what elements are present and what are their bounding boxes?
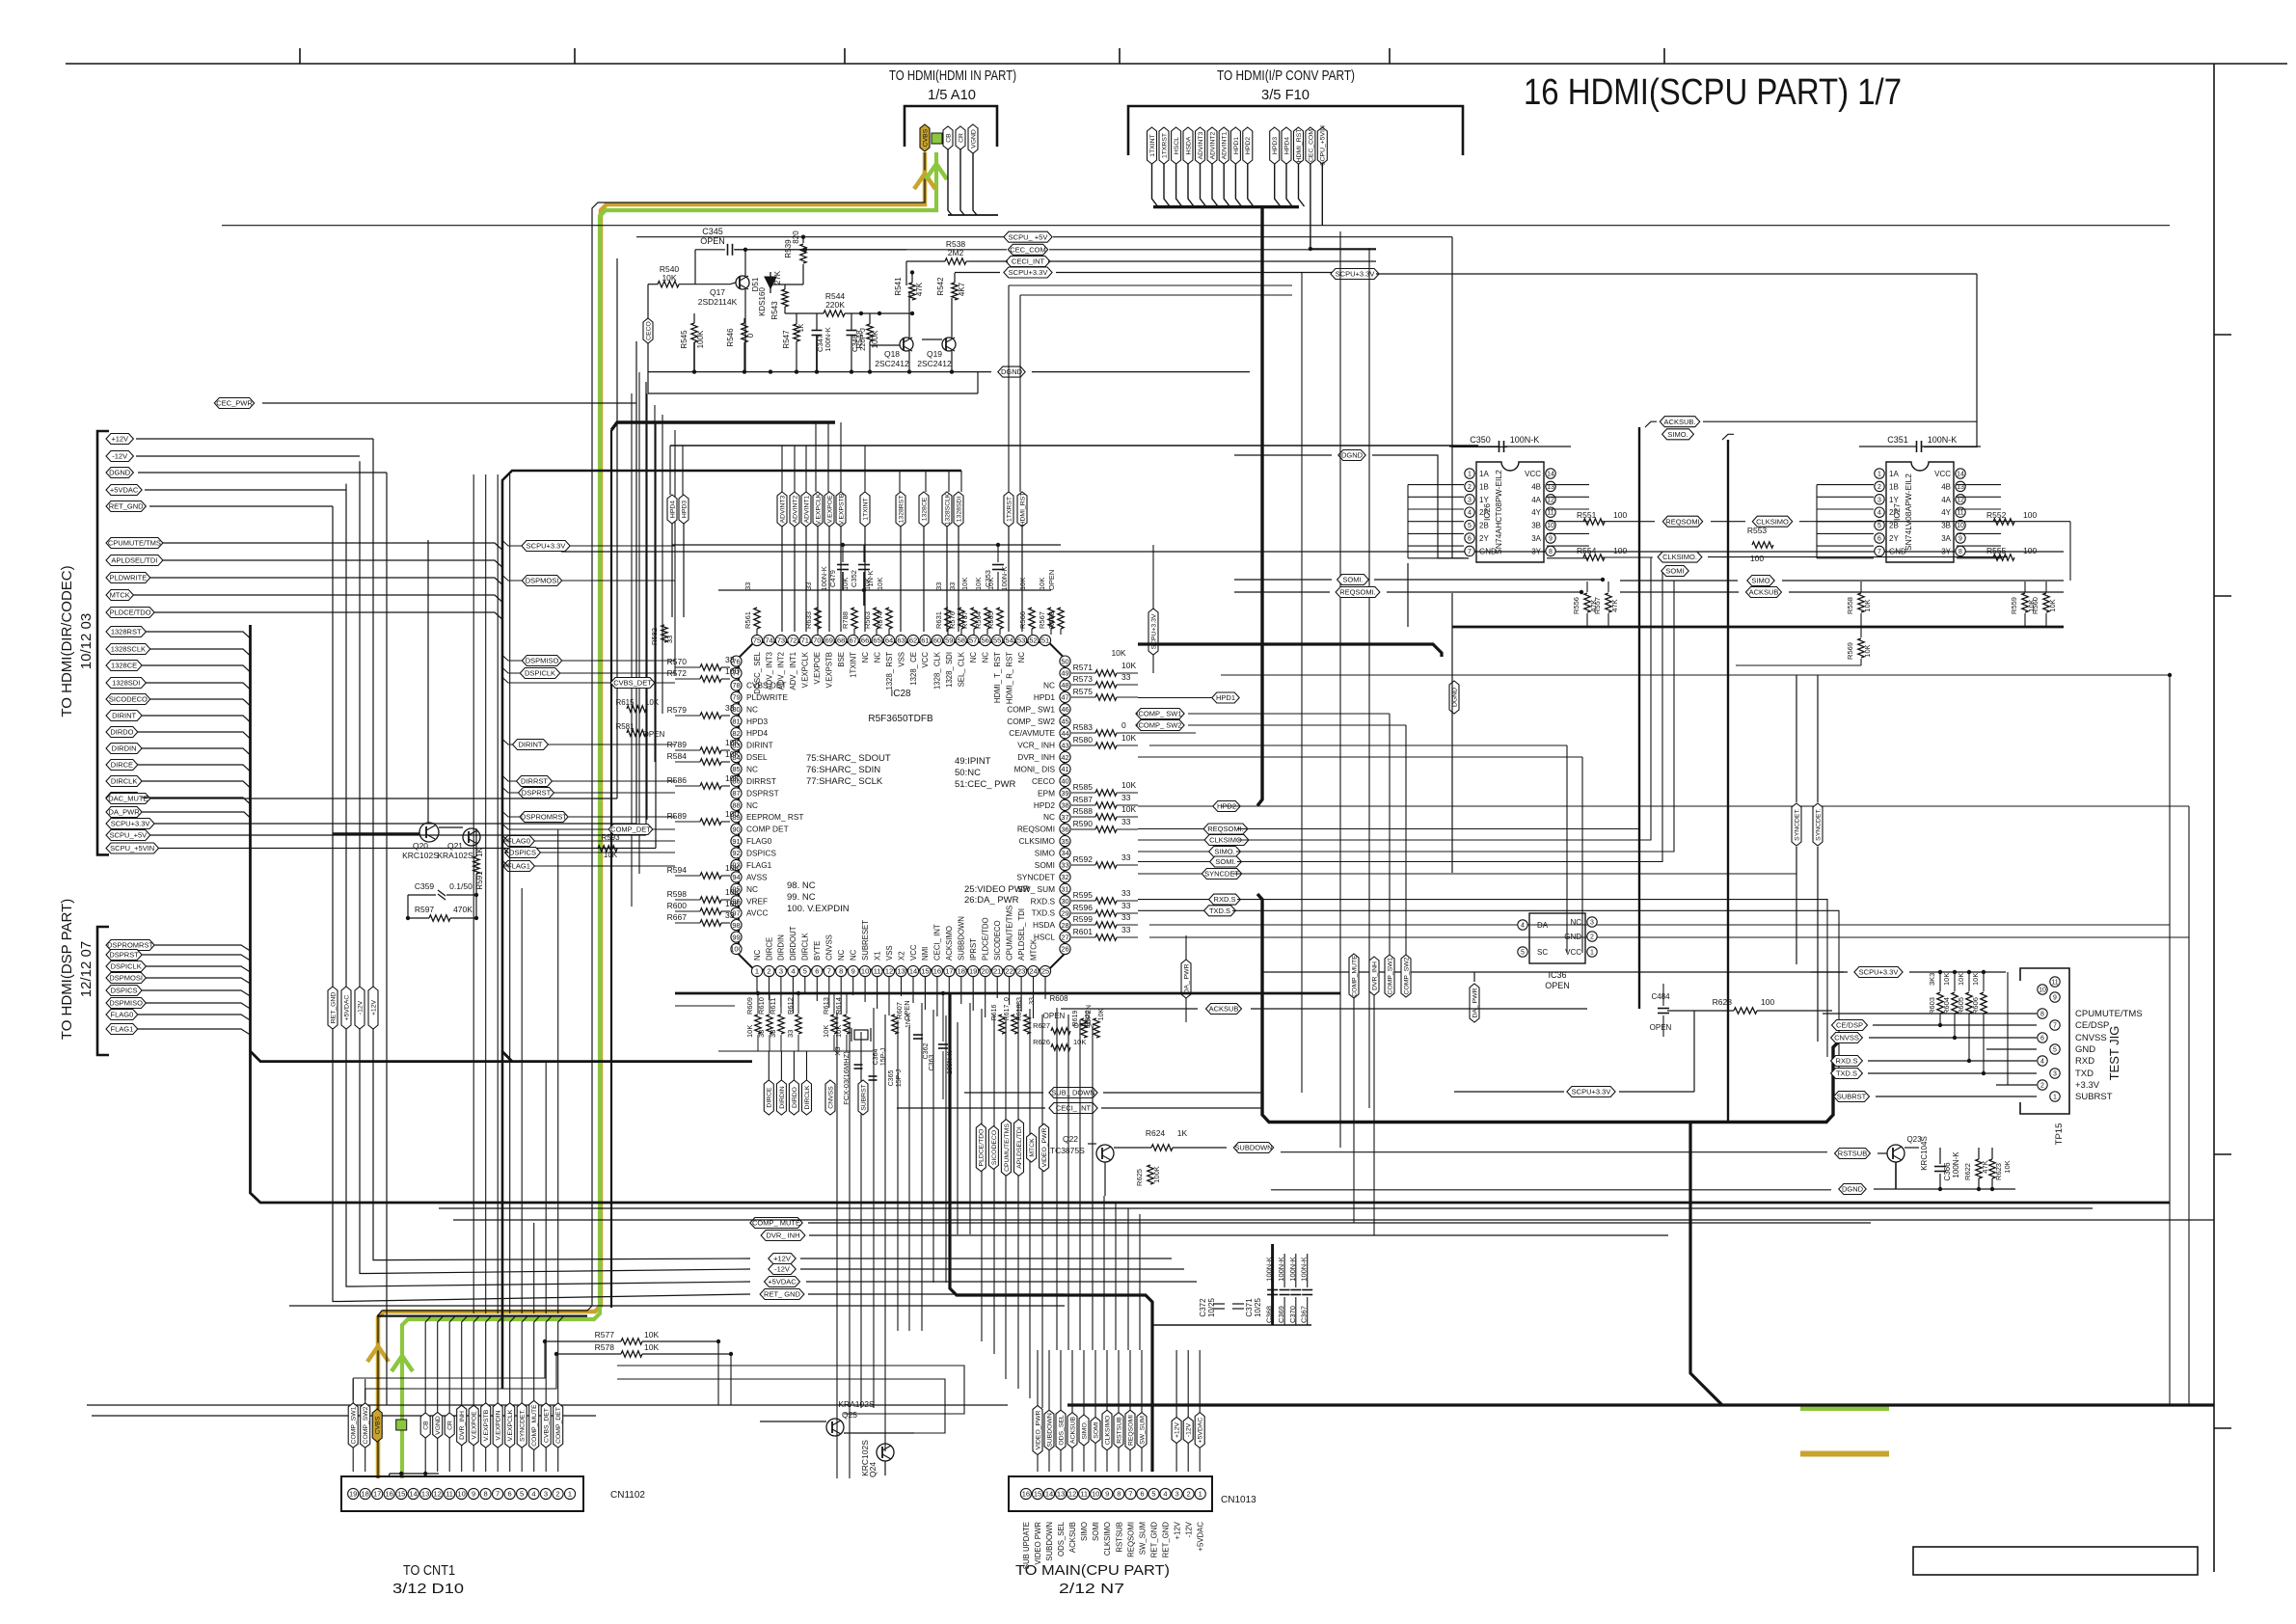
wires Q24 Q25 bbox=[844, 1432, 914, 1434]
svg-text:CEC_COM: CEC_COM bbox=[1010, 245, 1046, 254]
svg-text:7: 7 bbox=[827, 967, 831, 976]
wire ADVINT3 down to bus bbox=[1201, 164, 1206, 206]
wire HDMI_RST down to bus bbox=[1299, 164, 1305, 206]
node COMP_DET flag above CN1102 bbox=[554, 1403, 563, 1448]
svg-text:R626: R626 bbox=[1033, 1038, 1050, 1046]
svg-text:KRC102S: KRC102S bbox=[402, 851, 439, 860]
wire SCPU+3.3V testjig long rail bbox=[1263, 971, 1844, 973]
svg-text:RET_GND: RET_GND bbox=[1162, 1522, 1171, 1558]
node HDMI_RST flag above IC right bbox=[1017, 492, 1027, 527]
node SOMI flag above CN1013 bbox=[1091, 1417, 1100, 1443]
node VIDEO_PWR vertical flag under IC 2 bbox=[1040, 1123, 1049, 1171]
node DIRDO vertical flag under IC bbox=[789, 1080, 798, 1115]
wire SCPU+3.3V vertical to R628 row bbox=[1693, 1011, 1695, 1092]
svg-text:R568: R568 bbox=[1047, 611, 1056, 629]
svg-text:7: 7 bbox=[1468, 549, 1472, 555]
wire DSPRST to IC bbox=[554, 792, 676, 794]
wire thick frame left vertical x521 bbox=[502, 471, 961, 1389]
svg-text:ADVINT2: ADVINT2 bbox=[1209, 131, 1216, 159]
wire SOMI to CN1013 pin bbox=[1094, 1444, 1096, 1472]
svg-text:32: 32 bbox=[1061, 873, 1068, 881]
svg-text:COMP_DET: COMP_DET bbox=[610, 826, 651, 834]
border tick marks top bbox=[299, 48, 301, 64]
IC36 pin 3 NC bbox=[1587, 917, 1597, 927]
svg-text:R633: R633 bbox=[804, 611, 813, 629]
svg-text:470K: 470K bbox=[453, 905, 473, 914]
svg-text:4: 4 bbox=[1468, 510, 1472, 517]
wire DSPMOSI stub to bus bbox=[502, 575, 523, 581]
svg-text:CNVSS: CNVSS bbox=[2075, 1033, 2107, 1043]
svg-text:OPEN: OPEN bbox=[700, 236, 725, 246]
wire COMP_SW2 riser bbox=[365, 1354, 556, 1389]
IC28 pin 92 bbox=[731, 848, 742, 858]
svg-text:AVCC: AVCC bbox=[746, 908, 768, 918]
svg-text:1B: 1B bbox=[1889, 482, 1899, 491]
svg-text:1N-K: 1N-K bbox=[905, 1013, 912, 1028]
wire HPD4 down to bus bbox=[1286, 164, 1292, 206]
svg-text:2: 2 bbox=[1590, 934, 1594, 941]
svg-text:-12V: -12V bbox=[357, 1000, 364, 1015]
svg-text:X2: X2 bbox=[897, 951, 905, 961]
resistor R601 33 right of IC bbox=[1095, 934, 1117, 940]
IC IC27 pin 7 bbox=[1875, 546, 1884, 555]
wire extra verticals to CN1013 bbox=[1056, 1008, 1058, 1350]
IC28 pin 87 bbox=[731, 788, 742, 798]
wire thick bus under I/P CONV connector bbox=[1153, 205, 1299, 208]
svg-text:DGND: DGND bbox=[1341, 451, 1364, 460]
svg-text:100K: 100K bbox=[1152, 1166, 1161, 1183]
svg-text:R571: R571 bbox=[1073, 663, 1094, 672]
node ACKSUB flag mid bbox=[1206, 1004, 1242, 1015]
svg-text:R596: R596 bbox=[1073, 903, 1094, 912]
node RET_GND flag left power bbox=[106, 501, 146, 512]
svg-text:6: 6 bbox=[815, 967, 819, 976]
svg-text:1328CE: 1328CE bbox=[921, 497, 928, 521]
IC28 pin 78 bbox=[731, 680, 742, 690]
title block box bbox=[1913, 1547, 2198, 1575]
resistor R595 33 right of IC bbox=[1095, 898, 1117, 904]
svg-text:COMP_DET: COMP_DET bbox=[555, 1407, 562, 1444]
CN1102 pin 8 bbox=[480, 1488, 491, 1499]
resistor R584 10K left of IC bbox=[700, 759, 721, 765]
svg-text:100: 100 bbox=[1750, 554, 1764, 563]
svg-text:TXD: TXD bbox=[2075, 1069, 2093, 1079]
resistor R617 33 below IC bbox=[1012, 1015, 1017, 1034]
IC IC27 pin 13 bbox=[1956, 481, 1965, 491]
svg-text:BYTE: BYTE bbox=[813, 941, 822, 961]
wire DGND rail dots bbox=[692, 369, 696, 373]
svg-text:HPD2: HPD2 bbox=[1245, 137, 1252, 154]
svg-text:14: 14 bbox=[1547, 472, 1554, 478]
svg-text:R616: R616 bbox=[991, 1005, 998, 1021]
svg-text:FLAG1: FLAG1 bbox=[111, 1025, 134, 1034]
capacitor C365 15P-J bbox=[869, 1075, 878, 1077]
node REQSOMI. flag right of IC bbox=[1203, 824, 1248, 834]
svg-text:X1: X1 bbox=[873, 951, 881, 961]
svg-text:5: 5 bbox=[1521, 950, 1525, 957]
svg-text:R624: R624 bbox=[1146, 1128, 1166, 1138]
wire ADVINT1 down to pin bbox=[805, 527, 807, 632]
wire SCPU+3.3V vertical bbox=[1152, 545, 1154, 609]
svg-text:SCPU+3.3V: SCPU+3.3V bbox=[1859, 968, 1899, 977]
svg-text:3: 3 bbox=[1468, 497, 1472, 503]
resistor R548 100K vertical bbox=[867, 324, 873, 341]
svg-text:FLAG0: FLAG0 bbox=[507, 837, 530, 846]
svg-text:10K: 10K bbox=[834, 1025, 843, 1038]
svg-text:45: 45 bbox=[1061, 717, 1068, 726]
svg-text:KRC104S: KRC104S bbox=[1920, 1136, 1929, 1171]
svg-text:13: 13 bbox=[897, 967, 905, 976]
wire HPD3 drop bbox=[682, 446, 684, 495]
resistor R576 33 bbox=[959, 608, 964, 629]
IC28 pin 41 bbox=[1060, 764, 1070, 774]
wires syncdet verticals bbox=[1796, 675, 1797, 802]
IC28 pin 67 bbox=[848, 635, 858, 645]
svg-text:10K: 10K bbox=[725, 738, 740, 747]
svg-text:14: 14 bbox=[1045, 1490, 1053, 1499]
node HSDA flag at I/P CONV connector bbox=[1183, 127, 1193, 164]
svg-text:TO HDMI(I/P CONV PART): TO HDMI(I/P CONV PART) bbox=[1217, 68, 1355, 84]
svg-text:2A: 2A bbox=[1889, 508, 1899, 517]
svg-text:39: 39 bbox=[1061, 789, 1068, 798]
wire HPD4 down bbox=[671, 524, 673, 617]
IC28 pin 73 bbox=[775, 635, 786, 645]
svg-text:SUBDOWN: SUBDOWN bbox=[1045, 1522, 1054, 1561]
svg-text:CECO: CECO bbox=[645, 321, 652, 340]
svg-text:COMP_SW2: COMP_SW2 bbox=[1403, 957, 1410, 994]
svg-text:SW_SUM: SW_SUM bbox=[1138, 1522, 1147, 1555]
svg-text:V.EXPSTB: V.EXPSTB bbox=[483, 1409, 490, 1441]
svg-text:IC36: IC36 bbox=[1548, 970, 1566, 980]
resistor R558 10K vertical bbox=[1858, 593, 1864, 612]
arrow on Y at bottom bbox=[392, 1356, 413, 1371]
wire SCPU_+5VIN down bbox=[1321, 164, 1323, 226]
svg-text:COMP_ SW1: COMP_ SW1 bbox=[1007, 704, 1055, 714]
svg-text:33: 33 bbox=[1121, 888, 1131, 898]
IC36 pin 5 SC bbox=[1518, 947, 1527, 957]
svg-text:2: 2 bbox=[767, 967, 770, 976]
IC36 pin 1 VCC bbox=[1587, 947, 1597, 957]
svg-text:RET_ GND: RET_ GND bbox=[764, 1290, 801, 1299]
IC IC26 pin 2 bbox=[1465, 481, 1474, 491]
svg-text:14: 14 bbox=[909, 967, 917, 976]
IC28 pin 42 bbox=[1060, 752, 1070, 763]
node CEC_COM flag bbox=[1008, 244, 1047, 255]
wires Q22 nets bbox=[1114, 1147, 1151, 1149]
wire ACKSUB net bbox=[1645, 421, 1657, 427]
svg-text:DA_PWR: DA_PWR bbox=[109, 808, 141, 817]
svg-text:3A: 3A bbox=[1941, 534, 1951, 543]
svg-text:CE/AVMUTE: CE/AVMUTE bbox=[1009, 728, 1055, 738]
svg-text:1TXRST: 1TXRST bbox=[1006, 497, 1013, 522]
node V.EXPSTB flag above IC bbox=[836, 492, 846, 527]
capacitor C479 100N-K bbox=[837, 564, 849, 566]
node CEC_COM flag at I/P CONV connector bbox=[1306, 127, 1315, 164]
svg-text:SOMI: SOMI bbox=[1093, 1421, 1099, 1438]
IC28 pin 81 bbox=[731, 716, 742, 726]
node FLAG0 flag left dsp bbox=[106, 1010, 138, 1020]
svg-text:SUB_ DOWN: SUB_ DOWN bbox=[1051, 1089, 1094, 1097]
resistor R581 OPEN bbox=[627, 730, 646, 736]
svg-text:90: 90 bbox=[732, 825, 740, 833]
node SUBRST vertical flag under IC bbox=[858, 1080, 868, 1115]
svg-text:33: 33 bbox=[1121, 817, 1131, 826]
svg-text:PLDWRITE: PLDWRITE bbox=[746, 692, 788, 702]
svg-text:DIRDO: DIRDO bbox=[110, 728, 133, 737]
svg-text:R542: R542 bbox=[936, 277, 945, 296]
svg-text:HDMI_RST: HDMI_RST bbox=[1296, 129, 1303, 163]
svg-text:ACKSUB: ACKSUB bbox=[1068, 1522, 1077, 1553]
svg-text:SUB UPDATE: SUB UPDATE bbox=[1022, 1522, 1031, 1569]
wire COMP_SW1 to CN1102 pin bbox=[352, 1448, 354, 1472]
svg-text:12: 12 bbox=[1957, 497, 1964, 503]
resistor R623 10K vertical bbox=[1989, 1159, 1995, 1178]
svg-text:C479: C479 bbox=[828, 570, 837, 587]
resistor R599 33 right of IC bbox=[1095, 922, 1117, 928]
CN1013 pin 4 bbox=[1160, 1488, 1171, 1499]
svg-text:1Y: 1Y bbox=[1889, 496, 1899, 504]
svg-text:R615: R615 bbox=[615, 698, 635, 707]
svg-text:C353: C353 bbox=[984, 570, 992, 587]
svg-text:2A: 2A bbox=[1479, 508, 1489, 517]
capacitor C351 100N-K bbox=[1916, 441, 1918, 452]
svg-text:2Y: 2Y bbox=[1889, 534, 1899, 543]
svg-text:R559: R559 bbox=[2010, 597, 2018, 614]
wire R541 top bbox=[911, 273, 913, 283]
svg-text:HDMI_RST: HDMI_RST bbox=[1019, 493, 1026, 527]
svg-text:98. NC: 98. NC bbox=[787, 880, 816, 891]
svg-text:4B: 4B bbox=[1531, 482, 1541, 491]
IC IC26 pin 8 bbox=[1546, 546, 1555, 555]
wire RSTSUB to CN1013 pin bbox=[1118, 1448, 1120, 1472]
IC IC26 pin 5 bbox=[1465, 520, 1474, 529]
svg-text:CLKSIMO: CLKSIMO bbox=[1756, 517, 1789, 526]
svg-text:HPD4: HPD4 bbox=[1283, 137, 1290, 154]
svg-text:DSPICS: DSPICS bbox=[509, 849, 536, 857]
svg-text:78: 78 bbox=[732, 681, 740, 690]
node DSPROMRST flag left of IC bbox=[520, 812, 568, 823]
svg-text:DSPMOSI: DSPMOSI bbox=[109, 974, 143, 983]
wire SCPU+3.3V stub to bus bbox=[502, 540, 522, 546]
svg-text:6: 6 bbox=[1140, 1490, 1144, 1499]
node V.EXPSTB flag above CN1102 bbox=[481, 1403, 491, 1448]
resistor R631 33 bbox=[945, 608, 951, 629]
IC IC26 pin 3 bbox=[1465, 495, 1474, 504]
svg-text:53: 53 bbox=[1017, 636, 1025, 645]
svg-text:V.EXPCLK: V.EXPCLK bbox=[801, 651, 810, 688]
testjig pin 2 +3.3V bbox=[2038, 1080, 2047, 1090]
svg-text:10K: 10K bbox=[2003, 1160, 2012, 1173]
svg-text:DGND: DGND bbox=[109, 469, 131, 477]
svg-text:ACKSIMO: ACKSIMO bbox=[945, 926, 954, 961]
IC IC27 pin 2 bbox=[1875, 481, 1884, 491]
svg-text:9: 9 bbox=[1958, 536, 1962, 543]
wire CECI_INT rail bbox=[969, 260, 1008, 262]
svg-text:KRA102S: KRA102S bbox=[838, 1399, 875, 1409]
svg-text:1N-K: 1N-K bbox=[866, 570, 875, 586]
testjig pin 8 CPUMUTE/TMS bbox=[2038, 1009, 2047, 1018]
node CVBS_DET flag above CN1102 bbox=[541, 1403, 551, 1448]
wires Q23 nets bbox=[1877, 1152, 1887, 1154]
resistor R585 10K right of IC bbox=[1095, 790, 1117, 796]
node DA_PWR flag left pwr2 bbox=[106, 807, 142, 818]
svg-text:VGND: VGND bbox=[435, 1416, 442, 1435]
svg-text:SUBRST: SUBRST bbox=[860, 1084, 867, 1111]
wire +5VDAC to CN1013 pin bbox=[1199, 1448, 1201, 1472]
wire COMP_SW1 riser bbox=[353, 1341, 545, 1378]
IC28 pin 97 bbox=[731, 907, 742, 918]
IC28 pin 63 bbox=[896, 635, 906, 645]
node 1328SDI flag left dir bbox=[106, 678, 146, 689]
svg-text:R551: R551 bbox=[1577, 510, 1597, 520]
IC28 pin 50 bbox=[1060, 656, 1070, 666]
wire DIRCLK vertical under IC bbox=[806, 1051, 808, 1080]
wires testjig pullup bottoms bbox=[1939, 1014, 1941, 1025]
IC IC27 SN74LV08APW-EIL2 body bbox=[1886, 462, 1954, 562]
svg-text:VIDEO PWR: VIDEO PWR bbox=[1034, 1522, 1042, 1565]
svg-text:29: 29 bbox=[1061, 908, 1068, 917]
svg-text:Q20: Q20 bbox=[413, 841, 428, 851]
svg-text:5: 5 bbox=[803, 967, 807, 976]
svg-text:100: 100 bbox=[725, 666, 739, 676]
svg-text:SCPU+3.3V: SCPU+3.3V bbox=[1336, 270, 1375, 279]
resistor R619 OPEN vertical bbox=[1081, 1018, 1087, 1038]
svg-text:1TXINT: 1TXINT bbox=[850, 652, 858, 678]
svg-text:R574: R574 bbox=[876, 611, 884, 629]
svg-text:CR: CR bbox=[447, 1421, 454, 1430]
svg-text:ADVINT3: ADVINT3 bbox=[779, 495, 786, 523]
resistor R620 10K vertical bbox=[1094, 1018, 1099, 1038]
svg-text:DIRCE: DIRCE bbox=[767, 1087, 773, 1108]
wire DIRDO vertical under IC bbox=[793, 1051, 795, 1080]
svg-text:RET_GND: RET_GND bbox=[109, 502, 144, 511]
node DAC_MUTE flag left pwr2 bbox=[106, 794, 150, 804]
capacitor C347 100N-K bbox=[812, 330, 823, 332]
svg-text:V.EXPCLK: V.EXPCLK bbox=[507, 1409, 514, 1441]
svg-text:COMP_ SW2: COMP_ SW2 bbox=[1007, 717, 1055, 726]
node +5VDAC flag mid bbox=[765, 1277, 800, 1287]
wire CLKSIMO long run bbox=[1238, 557, 1651, 840]
resistor R567 10K bbox=[1048, 608, 1054, 629]
wires left pwr2 flags bbox=[150, 798, 617, 799]
svg-text:CB: CB bbox=[945, 133, 952, 143]
svg-text:10K: 10K bbox=[2048, 599, 2057, 611]
CN1013 pin 9 bbox=[1102, 1488, 1113, 1499]
svg-text:36: 36 bbox=[1061, 825, 1068, 833]
node FLAG1 flag left of IC bbox=[503, 861, 535, 872]
resistor R570 33 left of IC bbox=[700, 664, 721, 670]
IC28 pin 28 bbox=[1060, 920, 1070, 931]
node MTCK vertical flag under IC 2 bbox=[1027, 1133, 1037, 1162]
IC28 pin 43 bbox=[1060, 740, 1070, 750]
IC28 pin 68 bbox=[836, 635, 847, 645]
testjig pin 9 bbox=[2050, 992, 2060, 1002]
svg-text:CLKSIMO: CLKSIMO bbox=[1103, 1522, 1112, 1556]
node DSPMOSI flag left of IC bbox=[522, 576, 561, 586]
svg-text:100N-K: 100N-K bbox=[1928, 435, 1958, 445]
svg-text:R610: R610 bbox=[757, 997, 766, 1015]
svg-text:19: 19 bbox=[969, 967, 977, 976]
transistor Q17 2SD2114K bbox=[736, 276, 749, 289]
node HPD2 flag at I/P CONV connector bbox=[1243, 127, 1253, 164]
svg-text:SCPU+3.3V: SCPU+3.3V bbox=[1572, 1088, 1611, 1096]
IC28 pin 76 bbox=[731, 656, 742, 666]
resistor R573 33 right of IC bbox=[1095, 682, 1117, 688]
resistor R551 100 bbox=[1583, 519, 1605, 525]
svg-text:+12V: +12V bbox=[1175, 1422, 1181, 1439]
node 1328SDI flag above IC right bbox=[954, 492, 963, 527]
svg-text:RXD.S: RXD.S bbox=[1214, 895, 1236, 904]
svg-text:R600: R600 bbox=[667, 901, 688, 910]
svg-text:10K: 10K bbox=[1073, 1038, 1086, 1046]
CN1102 pin 3 bbox=[540, 1488, 551, 1499]
wire V.EXPSTB down to pin bbox=[840, 527, 842, 632]
node CNVSS flag bbox=[1831, 1033, 1863, 1043]
svg-text:PLDCE/TDO: PLDCE/TDO bbox=[110, 609, 151, 617]
resistor R564 10K bbox=[985, 608, 990, 629]
node SCPU+3.3V flag mid low bbox=[1567, 1087, 1615, 1097]
svg-text:HDMI_ T_ RST: HDMI_ T_ RST bbox=[993, 652, 1002, 703]
svg-text:10: 10 bbox=[861, 967, 869, 976]
resistor R627 OPEN bbox=[1051, 1028, 1070, 1034]
wire DSPROMRST stub to bus bbox=[502, 811, 520, 817]
svg-text:10K: 10K bbox=[725, 863, 740, 873]
node 1TXINT flag above IC right bbox=[860, 492, 870, 527]
svg-text:0: 0 bbox=[746, 333, 755, 338]
wire DGND rail left of flag bbox=[1271, 1189, 1831, 1191]
svg-text:4: 4 bbox=[2040, 1059, 2044, 1066]
wire HSCL long run bbox=[1149, 936, 2189, 938]
svg-text:R599: R599 bbox=[1073, 914, 1094, 924]
capacitor C484 OPEN right bbox=[1658, 1008, 1669, 1010]
resistor R607 OPEN below IC bbox=[892, 1015, 898, 1034]
svg-text:DVR_INH: DVR_INH bbox=[459, 1411, 466, 1440]
wire DSPRST stub to bus bbox=[502, 787, 519, 793]
wire DVR_INH vertical down bbox=[1373, 995, 1375, 1235]
svg-text:3/12 D10: 3/12 D10 bbox=[392, 1581, 464, 1597]
wire long verticals center band bbox=[836, 1013, 838, 1478]
CN1013 pin 2 bbox=[1183, 1488, 1194, 1499]
svg-text:1A: 1A bbox=[1479, 470, 1489, 478]
wire Q17 emitter bbox=[744, 289, 746, 372]
IC28 pin 57 bbox=[968, 635, 979, 645]
transistor Q20 KRC102S bbox=[419, 823, 439, 842]
capacitor C368 100N-K bbox=[1267, 1289, 1278, 1291]
svg-text:100: 100 bbox=[1761, 997, 1774, 1007]
svg-text:COMP_SW1: COMP_SW1 bbox=[1387, 957, 1393, 994]
svg-text:67: 67 bbox=[850, 636, 857, 645]
svg-text:SC: SC bbox=[1537, 948, 1548, 957]
IC28 pin 10 bbox=[860, 965, 871, 976]
svg-text:79: 79 bbox=[732, 693, 740, 702]
svg-text:15P-J: 15P-J bbox=[896, 1069, 903, 1087]
svg-text:EPM: EPM bbox=[1038, 788, 1055, 798]
svg-text:R5F3650TDFB: R5F3650TDFB bbox=[868, 714, 933, 724]
svg-text:GND: GND bbox=[2075, 1044, 2095, 1055]
wire R628 net bbox=[1667, 1010, 1734, 1012]
svg-text:ACKSUB: ACKSUB bbox=[1209, 1005, 1239, 1014]
wire 1TXRST down to pin bbox=[1008, 527, 1010, 632]
svg-text:62: 62 bbox=[909, 636, 917, 645]
resistor R605 10K testjig pullup bbox=[1966, 992, 1972, 1014]
svg-text:9: 9 bbox=[1549, 536, 1553, 543]
svg-text:REQSOMI: REQSOMI bbox=[1665, 517, 1699, 526]
svg-text:C350: C350 bbox=[1470, 435, 1491, 445]
IC28 pin 38 bbox=[1060, 799, 1070, 810]
svg-text:KTC3875S: KTC3875S bbox=[1044, 1146, 1085, 1155]
node CLKSIMO flag right2 bbox=[1752, 516, 1792, 527]
svg-text:R598: R598 bbox=[667, 889, 688, 899]
